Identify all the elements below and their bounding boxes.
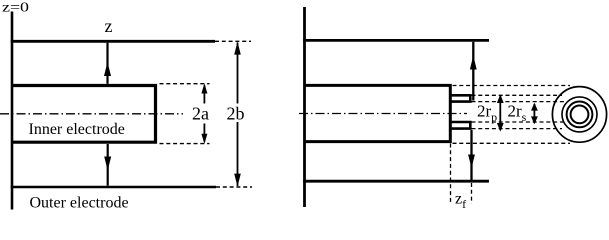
- svg-text:z: z: [105, 16, 113, 36]
- right outer electrode wall (vertical line): [303, 7, 306, 207]
- cross-section capillary outer circle: [562, 97, 597, 132]
- left top plate dashed extension: [215, 40, 251, 42]
- svg-text:z=0: z=0: [2, 0, 29, 15]
- z direction line (bottom): [107, 144, 109, 186]
- 2b dimension upper arrow: [237, 43, 239, 104]
- capillary upper wall: [451, 95, 471, 101]
- capillary lower wall: [451, 122, 471, 129]
- 2a dimension upper arrow: [203, 86, 205, 104]
- left bottom plate line: [11, 186, 216, 189]
- svg-text:2b: 2b: [227, 104, 245, 124]
- centerline (axis) left: [0, 113, 183, 115]
- tip position dimension line (top): [472, 42, 474, 101]
- dashed vertical at body edge: [450, 144, 452, 204]
- z direction line (top): [106, 43, 108, 84]
- 2a dimension lower arrow: [203, 124, 205, 142]
- right bottom plate line: [303, 180, 489, 183]
- dashed extension of box bottom: [160, 143, 210, 145]
- dashed projection line body bottom: [453, 142, 571, 144]
- dashed projection line capillary inner bottom: [472, 121, 567, 123]
- z direction arrowhead down: [104, 157, 111, 171]
- dashed vertical at tip end: [471, 183, 473, 204]
- 2rp dimension double arrow: [499, 96, 501, 130]
- tip position dimension line (bottom): [470, 130, 472, 181]
- left top plate line: [11, 40, 215, 43]
- cross-section tube ring inner circle (bore): [571, 106, 589, 124]
- right inner electrode body: [305, 85, 451, 141]
- 2b dimension lower arrow: [237, 122, 239, 186]
- 2rs dimension double arrow: [533, 104, 535, 123]
- left bottom plate dashed extension: [216, 186, 252, 188]
- centerline (axis) right: [299, 113, 467, 115]
- dashed projection line capillary inner top: [472, 101, 567, 103]
- dashed projection line capillary outer bottom: [472, 128, 563, 130]
- left outer electrode wall (vertical line): [11, 12, 14, 210]
- cross-section tube ring outer circle: [567, 102, 593, 128]
- svg-text:Inner electrode: Inner electrode: [29, 121, 125, 138]
- svg-text:Outer electrode: Outer electrode: [30, 195, 129, 212]
- svg-text:2a: 2a: [192, 104, 209, 124]
- cross-section outer electrode circle: [552, 87, 606, 143]
- arrowhead down: [468, 155, 475, 169]
- right top plate line: [303, 39, 489, 42]
- z direction arrowhead up: [104, 62, 111, 76]
- dashed projection line body top: [453, 85, 571, 87]
- arrowhead up: [470, 56, 477, 70]
- dashed projection line capillary outer top: [472, 94, 563, 96]
- inner electrode box: [12, 86, 156, 143]
- dashed extension of box top: [160, 83, 210, 85]
